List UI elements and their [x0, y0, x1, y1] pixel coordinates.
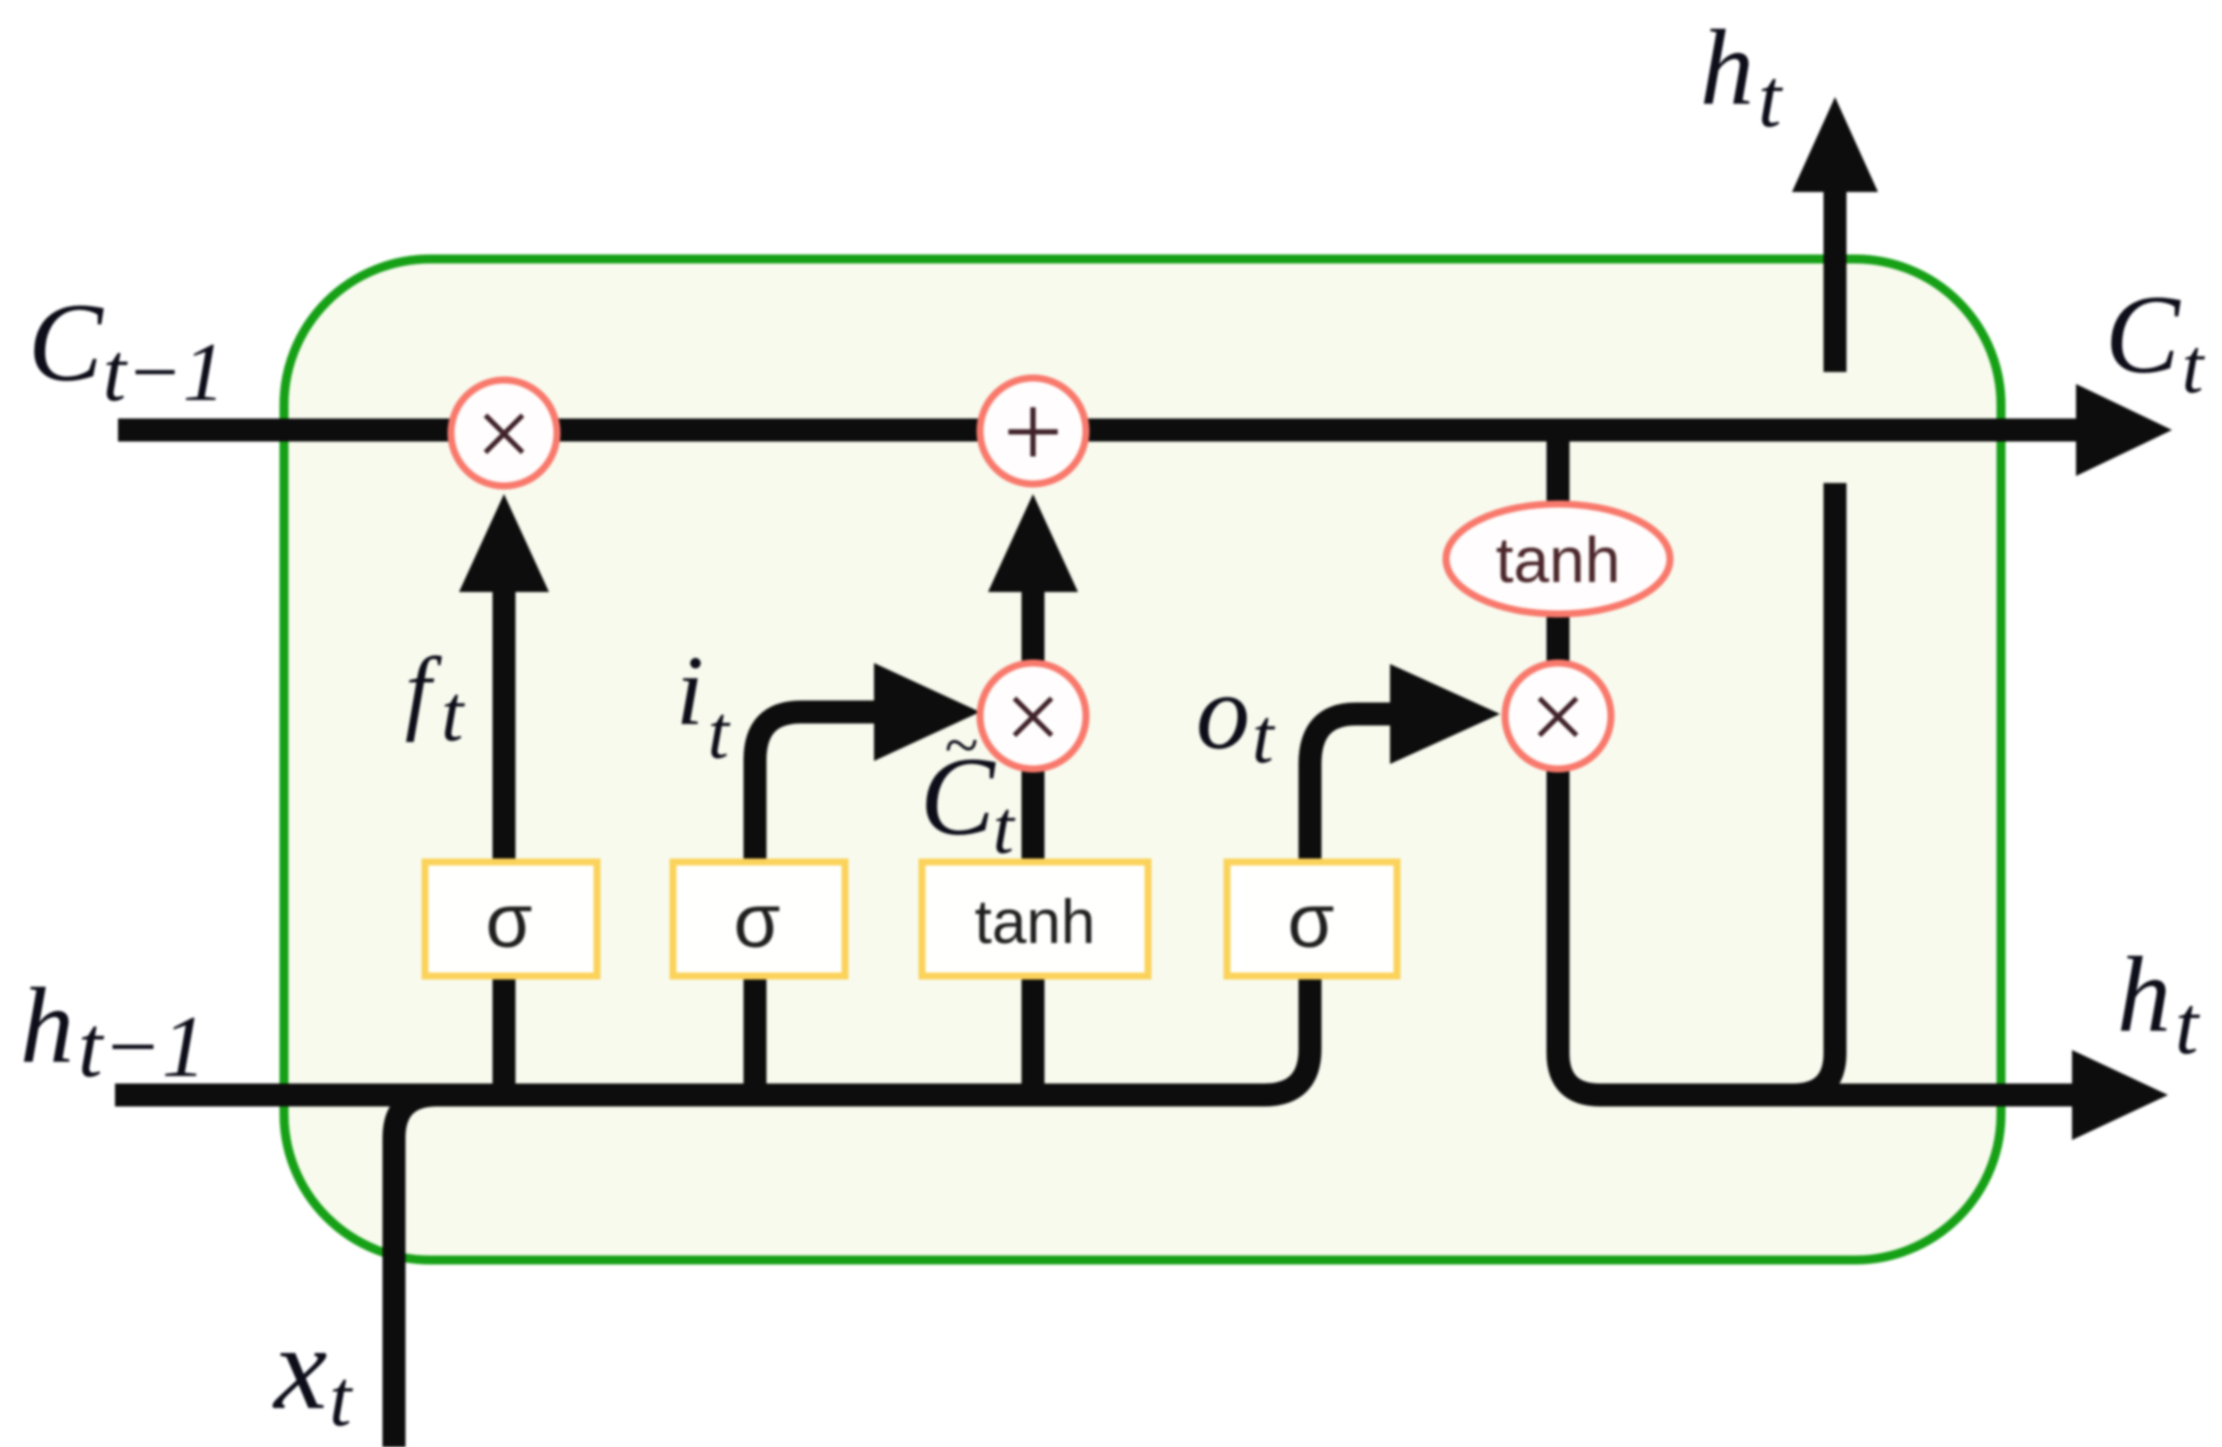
multiply node output	[1505, 663, 1611, 769]
svg-text:×: ×	[1005, 661, 1061, 772]
wire: cell state line C	[118, 419, 2080, 442]
svg-text:tanh: tanh	[975, 888, 1096, 957]
svg-text:~: ~	[944, 712, 978, 780]
svg-text:ht−1: ht−1	[20, 967, 206, 1096]
svg-text:xt: xt	[272, 1301, 353, 1443]
arrowhead into plus node	[988, 494, 1078, 592]
wire: output path from multiply node to h_t right	[1558, 769, 2075, 1095]
wire: forget gate column f	[493, 588, 516, 1095]
svg-text:tanh: tanh	[1496, 524, 1621, 596]
multiply node candidate	[980, 663, 1086, 769]
svg-text:ht: ht	[1700, 9, 1784, 145]
wire: C line branch down to tanh	[1547, 430, 1570, 505]
arrowhead h_t right	[2072, 1050, 2168, 1140]
wire: h_t riser lower segment	[1793, 483, 1835, 1095]
wire: tanh to output multiply node	[1547, 613, 1570, 663]
arrowhead i_t into multiply node	[874, 663, 980, 761]
sigma box 1	[425, 862, 597, 976]
sigma box 3	[1227, 862, 1397, 976]
svg-text:ht: ht	[2117, 936, 2201, 1072]
LSTM cell body	[284, 259, 2001, 1260]
svg-text:σ: σ	[1288, 879, 1335, 964]
wire: h_t riser upper segment	[1824, 186, 1847, 372]
wire: h bottom line with o_t branch elbow	[115, 714, 1392, 1095]
sigma box 2	[673, 862, 845, 976]
svg-text:×: ×	[476, 378, 532, 489]
svg-text:×: ×	[1530, 661, 1586, 772]
plus node	[980, 378, 1086, 484]
tanh ellipse node	[1446, 504, 1670, 614]
arrowhead C_t	[2076, 384, 2172, 476]
arrowhead f_t into multiply node	[459, 494, 549, 592]
svg-text:σ: σ	[486, 879, 533, 964]
wire: x_t input	[394, 1095, 437, 1447]
tanh box	[922, 862, 1148, 976]
svg-text:Ct: Ct	[2105, 273, 2206, 409]
multiply node forget gate	[451, 380, 557, 486]
wire: input gate column i with elbow	[755, 712, 880, 1095]
wire: candidate node up to plus node	[1022, 588, 1045, 663]
svg-text:+: +	[1003, 373, 1063, 490]
svg-text:σ: σ	[734, 879, 781, 964]
arrowhead o_t into multiply node	[1390, 664, 1500, 764]
arrowhead h_t top	[1792, 97, 1878, 192]
svg-text:Ct−1: Ct−1	[28, 281, 225, 419]
wire: candidate column C~	[1022, 769, 1045, 1095]
